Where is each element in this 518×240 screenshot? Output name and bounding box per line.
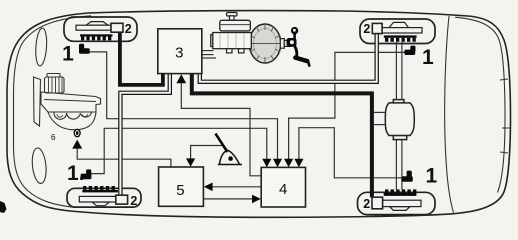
master cylinder ports xyxy=(227,49,245,53)
svg-text:2: 2 xyxy=(125,22,132,36)
svg-text:4: 4 xyxy=(279,181,287,198)
brake pipe: box3 to RR wheel (thick) xyxy=(192,74,372,198)
svg-text:2: 2 xyxy=(363,197,370,211)
arrowheads into box4 top xyxy=(262,159,271,167)
master cylinder reservoir xyxy=(220,20,251,31)
brake pipe: box3 to RF wheel (outlined) xyxy=(200,34,377,82)
wheel TL tire xyxy=(64,17,137,41)
brake pedal switch symbol xyxy=(216,134,243,165)
wheel RR tire xyxy=(358,192,436,214)
differential axle stubs xyxy=(374,112,385,124)
brake booster xyxy=(249,24,281,63)
wheel TL speed sensor xyxy=(79,44,90,54)
wheel RF hub box xyxy=(372,23,382,33)
arrowhead into box5 top (pedal switch) xyxy=(186,158,195,166)
master cylinder reservoir cap xyxy=(227,13,238,21)
arrowhead into sensor 6 xyxy=(72,140,82,149)
arrowhead into box5 right xyxy=(204,183,213,192)
svg-text:1.: 1. xyxy=(67,162,85,185)
wire: sensor TL to ECU arrow 2 xyxy=(89,52,278,160)
brake pipe: box3 to BL wheel (outlined) xyxy=(120,74,169,195)
arrowhead into box4 left xyxy=(252,195,261,204)
wheel RR axle bar xyxy=(377,200,421,210)
svg-text:1: 1 xyxy=(422,46,434,69)
car front inner line xyxy=(14,16,92,208)
master cylinder body xyxy=(211,33,252,49)
car rear hatch arc xyxy=(445,16,454,213)
engine bellhousing xyxy=(48,112,96,130)
wheel BL tire xyxy=(67,188,141,207)
wheel BL toothed ring xyxy=(82,186,118,192)
wire: master cylinder pipes to box3 xyxy=(202,51,216,58)
wheel TL hub box xyxy=(111,23,123,32)
svg-text:5: 5 xyxy=(176,182,184,199)
svg-text:3: 3 xyxy=(175,44,183,61)
engine block xyxy=(41,92,101,112)
engine ribbed canister xyxy=(45,74,65,94)
wire: box 5 to box 4 xyxy=(203,198,252,200)
wheel BL speed sensor xyxy=(81,169,92,179)
wire: box 4 to box 5 xyxy=(212,186,261,188)
wire: sensor BL to ECU arrow 1 xyxy=(91,128,267,173)
wheel TL toothed ring xyxy=(80,34,113,40)
wheel RF tire xyxy=(360,19,435,44)
wheel RF toothed ring xyxy=(384,35,417,41)
wheel RR speed sensor xyxy=(402,171,413,182)
brake pedal xyxy=(287,27,310,66)
wheel RR toothed ring xyxy=(384,189,417,196)
relay box 5 xyxy=(159,167,204,206)
wheel BL axle bar xyxy=(79,196,123,205)
arrowhead into box3 xyxy=(176,74,186,83)
hydraulic modulator box 3 xyxy=(158,29,202,74)
driveshaft upper xyxy=(396,42,402,190)
engine radiator blade xyxy=(34,77,41,126)
wire: sensor RF to ECU arrow 3 xyxy=(289,52,405,160)
ECU box 4 xyxy=(261,167,305,207)
wire: sensor RR to ECU arrow 4 xyxy=(299,128,402,178)
svg-text:1: 1 xyxy=(62,42,74,65)
scan corner blob xyxy=(0,201,7,213)
wheel BL hub box xyxy=(116,195,128,204)
sensor 6 (gearbox speed sensor) xyxy=(74,129,81,138)
wheel RR hub box xyxy=(372,197,383,209)
svg-text:1: 1 xyxy=(425,165,437,188)
wire: box 5 to sensor 6 xyxy=(77,148,171,167)
wheel TL axle bar xyxy=(76,22,119,31)
brake pipe: box3 to TL wheel (thick) xyxy=(120,32,163,85)
svg-text:6: 6 xyxy=(51,132,56,142)
car rear inner line xyxy=(455,17,505,192)
wire: ECU 4 to modulator 3 control line xyxy=(181,82,261,176)
rear edge ticks xyxy=(500,79,510,153)
svg-text:2: 2 xyxy=(363,22,370,36)
svg-text:2: 2 xyxy=(130,194,137,208)
wire: pedal switch to box 5 xyxy=(191,146,225,160)
booster pushrod xyxy=(280,39,290,49)
wheel RF axle bar xyxy=(380,22,422,33)
front pod oval lower xyxy=(31,147,48,184)
front pod oval upper xyxy=(35,28,48,67)
wheel RF speed sensor xyxy=(404,46,415,55)
differential xyxy=(385,100,414,140)
